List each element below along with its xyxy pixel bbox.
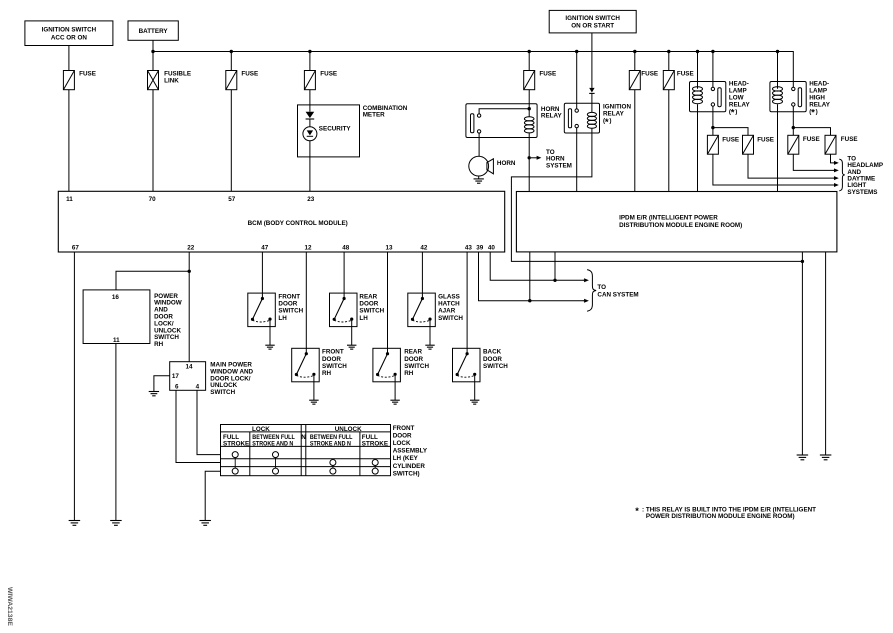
- junction dot to horn system: [528, 156, 531, 159]
- svg-text:UNLOCK: UNLOCK: [335, 426, 362, 433]
- wire fuse to combination meter: [309, 90, 311, 112]
- wire ignition ACC to fuse: [68, 46, 70, 71]
- arrow headlamp systems 1: [834, 161, 839, 165]
- svg-text:DOOR: DOOR: [322, 356, 341, 363]
- brace to CAN system: [587, 270, 596, 312]
- wire bus to headlamp low relay coil: [697, 52, 699, 89]
- wire bus to fuse: [309, 52, 311, 71]
- key cylinder contact row C: [372, 468, 378, 474]
- svg-text:FUSE: FUSE: [539, 71, 556, 78]
- svg-text:IGNITION SWITCH: IGNITION SWITCH: [565, 15, 620, 22]
- wire BCM pin 12 to front door switch RH: [305, 252, 307, 348]
- ground of BCM pin 67: [69, 521, 81, 526]
- key cylinder contact row C: [330, 468, 336, 474]
- ignition relay box: [564, 103, 599, 133]
- label glass hatch ajar switch: [438, 293, 463, 322]
- wire fuse to headlamp systems arrow 3: [748, 154, 834, 178]
- svg-text:SECURITY: SECURITY: [319, 125, 352, 132]
- svg-text:40: 40: [488, 244, 496, 251]
- combination meter box: [298, 105, 360, 157]
- wire BCM pin 48 to rear door switch LH: [343, 252, 345, 293]
- label TO HORN SYSTEM: [546, 149, 572, 169]
- svg-text:FUSE: FUSE: [803, 136, 820, 143]
- wire horn relay contact to coil node: [479, 109, 529, 114]
- svg-text:48: 48: [342, 244, 350, 251]
- svg-text:67: 67: [72, 244, 80, 251]
- junction dot bus: [667, 50, 670, 53]
- svg-text:WIWA2138E: WIWA2138E: [6, 587, 13, 626]
- svg-text::: :: [642, 507, 644, 514]
- svg-text:23: 23: [307, 196, 315, 203]
- wire IPDM to CAN lower: [529, 252, 531, 301]
- svg-text:ASSEMBLY: ASSEMBLY: [393, 448, 428, 455]
- wire bus to headlamp high relay coil: [777, 52, 779, 89]
- junction dot bus: [308, 50, 311, 53]
- svg-text:11: 11: [113, 337, 120, 344]
- junction dot battery/bus: [151, 50, 154, 53]
- wire contact connector: [332, 466, 334, 469]
- svg-text:SYSTEMS: SYSTEMS: [847, 189, 877, 196]
- arrow to horn system: [531, 156, 542, 160]
- fuse (BCM pin 57 supply): [226, 71, 237, 90]
- svg-text:BACK: BACK: [483, 349, 502, 356]
- label MAIN POWER WINDOW AND DOOR LOCK/UNLOCK SWITCH: [210, 362, 253, 396]
- svg-text:43: 43: [465, 244, 473, 251]
- wire BCM pin 22 to main power window switch: [188, 252, 190, 362]
- label rear door switch RH: [404, 349, 429, 378]
- wire IPDM to ground right 1: [801, 252, 803, 455]
- ground of key cylinder switch: [199, 521, 211, 526]
- svg-text:POWER DISTRIBUTION MODULE ENGI: POWER DISTRIBUTION MODULE ENGINE ROOM): [646, 513, 795, 520]
- wire BCM pin 40 CAN line: [490, 252, 584, 280]
- svg-text:16: 16: [112, 294, 120, 301]
- wire contact connector: [275, 458, 277, 469]
- label HEAD-LAMP HIGH RELAY (*): [809, 81, 831, 119]
- ground of back door switch: [470, 400, 479, 404]
- fuse (headlamp high 1): [788, 135, 799, 154]
- junction dot bus: [633, 50, 636, 53]
- label HORN RELAY: [541, 106, 563, 120]
- svg-text:FRONT: FRONT: [278, 293, 300, 300]
- label IPDM E/R (INTELLIGENT POWER DISTRIBUTION MODULE ENGINE ROOM): [619, 215, 742, 229]
- front door lock assembly key cylinder switch table: [221, 425, 391, 476]
- junction dot headlamp low fuses: [711, 126, 714, 129]
- svg-text:TO: TO: [597, 284, 606, 291]
- ground of front door switch RH: [309, 400, 318, 404]
- wire contact connector: [374, 466, 376, 469]
- svg-text:4: 4: [196, 383, 200, 390]
- wire BCM pin 42 to glass hatch ajar switch: [421, 252, 423, 293]
- front door switch LH: [248, 293, 275, 345]
- svg-text:METER: METER: [363, 111, 385, 118]
- wire ignition switch to diode: [591, 33, 593, 88]
- svg-text:DOOR: DOOR: [404, 356, 423, 363]
- bus wire from battery: [153, 52, 793, 88]
- svg-text:LH: LH: [278, 315, 287, 322]
- wire headlamp high contact to fuses: [792, 106, 794, 135]
- ignition relay contact terminals: [575, 109, 578, 128]
- horn relay contact terminals: [477, 114, 480, 133]
- wire fuse to BCM pin 11: [68, 90, 70, 192]
- label POWER WINDOW AND DOOR LOCK/UNLOCK SWITCH RH: [154, 293, 182, 348]
- BCM (body control module) box: [58, 191, 504, 252]
- svg-text:17: 17: [172, 373, 180, 380]
- headlamp high relay box: [770, 82, 806, 112]
- arrow headlamp systems 4: [834, 183, 839, 187]
- wire IPDM to CAN upper: [554, 252, 556, 280]
- wire horn to ground: [478, 176, 480, 179]
- key cylinder contact unlock row B: [330, 460, 336, 466]
- label TO HEADLAMP AND DAYTIME LIGHT SYSTEMS: [847, 155, 883, 196]
- wire headlamp low contact to fuses: [712, 106, 714, 135]
- fuse (BCM pin 11 supply): [63, 71, 74, 90]
- svg-text:FUSE: FUSE: [79, 71, 96, 78]
- svg-text:FUSE: FUSE: [320, 71, 337, 78]
- ground of rear door switch LH: [347, 345, 356, 349]
- wire key cylinder common to ground: [205, 471, 220, 520]
- svg-text:IGNITION: IGNITION: [603, 103, 631, 110]
- label back door switch: [483, 349, 508, 370]
- wire BCM pin 39 CAN line: [479, 252, 585, 301]
- svg-text:*: *: [731, 108, 735, 119]
- label BETWEEN FULL STROKE AND N col3: [310, 434, 353, 448]
- wire bus to fuse: [668, 52, 670, 71]
- wire bus to fusible link: [152, 52, 154, 71]
- battery box: [128, 21, 178, 40]
- ground of front door switch LH: [265, 345, 274, 349]
- wire branch to power window switch RH: [116, 271, 189, 290]
- headlamp high relay contact terminals: [792, 87, 795, 106]
- wire BCM pin 13 to rear door switch RH: [387, 252, 389, 348]
- svg-text:DOOR: DOOR: [359, 301, 378, 308]
- svg-text:RH: RH: [404, 370, 414, 377]
- svg-text:BATTERY: BATTERY: [139, 28, 169, 35]
- junction dot bus ignition relay contact: [575, 50, 578, 53]
- BCM bottom pin numbers: [72, 244, 496, 251]
- svg-text:FUSE: FUSE: [677, 71, 694, 78]
- wire horn relay coil to IPDM: [528, 133, 530, 192]
- svg-text:SWITCH: SWITCH: [404, 363, 429, 370]
- label TO CAN SYSTEM: [597, 284, 638, 298]
- wire headlamp high coil to IPDM: [777, 104, 779, 191]
- ground of IPDM 2: [820, 455, 832, 460]
- fuse (horn relay supply): [524, 71, 535, 90]
- svg-text:SWITCH: SWITCH: [359, 308, 384, 315]
- key cylinder contact row C: [232, 468, 238, 474]
- svg-text:LH: LH: [359, 315, 368, 322]
- svg-text:AJAR: AJAR: [438, 308, 456, 315]
- svg-text:RH: RH: [154, 341, 164, 348]
- diode ignition relay: [589, 88, 594, 94]
- glass hatch ajar switch: [408, 293, 436, 345]
- label FULL STROKE col4: [362, 434, 388, 448]
- svg-text:CYLINDER: CYLINDER: [393, 463, 426, 470]
- svg-text:FUSE: FUSE: [641, 71, 658, 78]
- horn relay contact bar: [471, 114, 474, 133]
- junction dot bus headlamp low contact: [711, 50, 714, 53]
- svg-text:FUSE: FUSE: [757, 136, 774, 143]
- wire pin 17 to ground: [154, 376, 170, 392]
- wire IPDM to ground right 2: [825, 252, 827, 455]
- wire BCM pin 47 to front door switch LH: [261, 252, 263, 293]
- junction dot horn relay coil: [528, 107, 531, 110]
- ignition relay contact bar: [568, 109, 571, 128]
- svg-text:22: 22: [187, 244, 195, 251]
- svg-text:SWITCH: SWITCH: [278, 308, 303, 315]
- svg-text:57: 57: [228, 196, 236, 203]
- ground of horn: [474, 179, 484, 183]
- label HEAD-LAMP LOW RELAY (*): [729, 81, 751, 119]
- svg-text:*: *: [811, 108, 815, 119]
- label rear door switch LH: [359, 293, 384, 322]
- wire contact connector: [234, 458, 236, 469]
- junction dot pin 22 branch: [188, 270, 191, 273]
- wire diode to ignition relay coil: [591, 93, 593, 112]
- svg-text:6: 6: [175, 383, 179, 390]
- svg-text:CAN SYSTEM: CAN SYSTEM: [597, 291, 638, 298]
- svg-text:70: 70: [149, 196, 157, 203]
- note text: [642, 507, 816, 520]
- svg-text:STROKE AND N: STROKE AND N: [310, 441, 351, 448]
- svg-text:DISTRIBUTION MODULE ENGINE ROO: DISTRIBUTION MODULE ENGINE ROOM): [619, 222, 742, 229]
- label FRONT DOOR LOCK ASSEMBLY LH (KEY CYLINDER SWITCH): [393, 425, 428, 478]
- wire pin 6 to key cylinder switch row B: [176, 390, 221, 462]
- fuse (IPDM supply): [629, 71, 640, 90]
- brace to headlamp systems: [839, 159, 844, 191]
- svg-text:14: 14: [185, 364, 193, 371]
- svg-text:): ): [816, 108, 818, 115]
- ignition switch ACC or ON box: [25, 21, 113, 46]
- svg-text:IGNITION SWITCH: IGNITION SWITCH: [42, 27, 97, 34]
- svg-text:ON OR START: ON OR START: [571, 23, 614, 30]
- wire fuse to headlamp systems arrow 1: [831, 154, 834, 163]
- wire bus to fuse: [230, 52, 232, 71]
- svg-text:39: 39: [476, 244, 484, 251]
- horn: [469, 156, 494, 176]
- svg-text:N: N: [301, 434, 306, 441]
- svg-text:LINK: LINK: [164, 77, 179, 84]
- svg-text:47: 47: [261, 244, 269, 251]
- svg-text:DOOR: DOOR: [278, 301, 297, 308]
- horn relay coil: [524, 117, 534, 133]
- label front door switch LH: [278, 293, 303, 322]
- security indicator lamp (LED): [303, 127, 317, 141]
- junction dot bus headlamp low coil: [696, 50, 699, 53]
- wire horn relay contact to horn: [478, 133, 480, 156]
- svg-text:SWITCH: SWITCH: [438, 315, 463, 322]
- arrow headlamp systems 2: [834, 168, 839, 172]
- junction dot CAN lower: [528, 299, 531, 302]
- wire BCM pin 67 to ground: [73, 252, 75, 521]
- headlamp high relay contact bar: [798, 88, 801, 107]
- svg-text:SWITCH: SWITCH: [210, 389, 235, 396]
- key cylinder contact lock row A: [273, 452, 279, 458]
- main power window and door lock/unlock switch box: [170, 362, 206, 391]
- wire diode to security indicator: [309, 119, 311, 127]
- svg-text:FUSE: FUSE: [722, 136, 739, 143]
- wire bus to fuse: [634, 52, 636, 71]
- svg-text:*: *: [635, 506, 639, 516]
- svg-text:IPDM E/R (INTELLIGENT POWER: IPDM E/R (INTELLIGENT POWER: [619, 215, 718, 222]
- svg-text:SWITCH): SWITCH): [393, 470, 420, 477]
- svg-text:RELAY: RELAY: [541, 112, 563, 119]
- wire fuse to IPDM: [668, 90, 670, 192]
- fuse (headlamp low 2): [743, 135, 754, 154]
- wire fuse to headlamp systems arrow 2: [793, 154, 834, 170]
- svg-text:STROKE: STROKE: [362, 441, 388, 448]
- label front door switch RH: [322, 349, 347, 378]
- junction dot bus headlamp high coil: [776, 50, 779, 53]
- svg-text:FRONT: FRONT: [322, 349, 344, 356]
- wire power window switch RH to ground: [115, 344, 117, 521]
- svg-text:RH: RH: [322, 370, 332, 377]
- headlamp high relay coil: [773, 87, 783, 104]
- fuse (headlamp low 1): [707, 135, 718, 154]
- wire branch to second fuse: [793, 128, 830, 136]
- arrow headlamp systems 3: [834, 176, 839, 180]
- wire branch to second fuse: [713, 128, 748, 136]
- power window and door lock/unlock switch RH box: [83, 290, 150, 344]
- svg-text:GLASS: GLASS: [438, 293, 460, 300]
- svg-text:FUSE: FUSE: [241, 71, 258, 78]
- svg-text:*: *: [605, 117, 609, 128]
- ground of rear door switch RH: [390, 400, 399, 404]
- svg-text:HORN: HORN: [497, 160, 516, 167]
- fuse (IPDM supply): [663, 71, 674, 90]
- front door switch RH: [292, 348, 320, 400]
- ground of main switch pin 17: [149, 392, 159, 396]
- svg-text:DOOR: DOOR: [483, 356, 502, 363]
- back door switch: [453, 348, 481, 400]
- wire security indicator to BCM pin 23: [309, 141, 311, 192]
- svg-text:): ): [609, 118, 611, 125]
- fusible link: [148, 71, 159, 90]
- headlamp low relay coil: [693, 87, 703, 104]
- key cylinder contact row C: [273, 468, 279, 474]
- ground of power window switch RH: [110, 521, 122, 526]
- ground of IPDM 1: [797, 455, 809, 460]
- headlamp low relay contact terminals: [711, 87, 714, 106]
- wire ignition relay coil to ground bus right: [511, 128, 802, 261]
- fuse (combination meter supply): [304, 71, 315, 90]
- rear door switch LH: [330, 293, 358, 345]
- wire bus to fuse: [528, 52, 530, 71]
- label BETWEEN FULL STROKE AND N col2: [252, 434, 295, 448]
- svg-text:LOCK: LOCK: [252, 426, 270, 433]
- junction dot bus: [528, 50, 531, 53]
- label IGNITION RELAY (*): [603, 103, 631, 128]
- headlamp low relay box: [690, 82, 726, 112]
- arrow CAN 2: [584, 299, 589, 303]
- ignition relay coil: [587, 112, 596, 128]
- wire fuse to horn relay: [528, 90, 530, 117]
- fuse (headlamp high 2): [825, 135, 836, 154]
- junction dot CAN upper: [553, 279, 556, 282]
- diode in combination meter: [306, 112, 315, 119]
- wire fuse to IPDM: [634, 90, 636, 192]
- ignition switch ON or START box: [549, 10, 636, 33]
- svg-text:SWITCH: SWITCH: [322, 363, 347, 370]
- label COMBINATION METER: [363, 105, 408, 118]
- svg-text:42: 42: [420, 244, 428, 251]
- svg-text:LH (KEY: LH (KEY: [393, 455, 419, 462]
- junction dot bus: [230, 50, 233, 53]
- svg-text:12: 12: [304, 244, 312, 251]
- headlamp low relay contact bar: [718, 88, 721, 107]
- BCM top pin numbers: [66, 196, 315, 203]
- wire ignition relay contact to IPDM: [576, 128, 578, 192]
- wire BCM pin 43 to back door switch: [466, 252, 468, 348]
- wire headlamp low coil to IPDM: [697, 104, 699, 191]
- svg-text:FUSE: FUSE: [841, 136, 858, 143]
- svg-text:SYSTEM: SYSTEM: [546, 162, 572, 169]
- junction dot headlamp high fuses: [792, 126, 795, 129]
- svg-text:13: 13: [385, 244, 393, 251]
- svg-text:BCM (BODY CONTROL MODULE): BCM (BODY CONTROL MODULE): [248, 220, 348, 227]
- svg-text:STROKE: STROKE: [223, 441, 249, 448]
- svg-text:REAR: REAR: [359, 293, 377, 300]
- horn relay box: [466, 104, 537, 138]
- svg-text:ACC OR ON: ACC OR ON: [51, 35, 87, 42]
- svg-text:REAR: REAR: [404, 349, 422, 356]
- arrow CAN 1: [584, 278, 589, 282]
- ground of glass hatch ajar switch: [425, 345, 434, 349]
- svg-text:FRONT: FRONT: [393, 425, 415, 432]
- svg-text:): ): [735, 108, 737, 115]
- wire pin 4 to key cylinder switch row A: [197, 390, 221, 454]
- rear door switch RH: [373, 348, 401, 400]
- wire battery to bus: [152, 40, 154, 51]
- junction dot ignition relay ground: [801, 260, 804, 263]
- wire fuse to BCM pin 57: [230, 90, 232, 192]
- svg-text:STROKE AND N: STROKE AND N: [252, 441, 293, 448]
- wire fuse to headlamp systems arrow 4: [713, 154, 834, 185]
- label FULL STROKE col1: [223, 434, 249, 448]
- svg-text:LOCK: LOCK: [393, 440, 411, 447]
- wire bus to ignition relay contact: [576, 52, 578, 109]
- wire fusible link to BCM pin 70: [152, 90, 154, 192]
- wire bus to headlamp low relay contact: [712, 52, 714, 88]
- svg-text:HATCH: HATCH: [438, 301, 460, 308]
- IPDM E/R box: [516, 192, 837, 252]
- svg-text:SWITCH: SWITCH: [483, 363, 508, 370]
- key cylinder contact lock row A: [232, 452, 238, 458]
- svg-text:11: 11: [66, 196, 73, 203]
- label FUSIBLE LINK: [164, 71, 191, 85]
- key cylinder contact unlock row B: [372, 460, 378, 466]
- svg-text:DOOR: DOOR: [393, 432, 412, 439]
